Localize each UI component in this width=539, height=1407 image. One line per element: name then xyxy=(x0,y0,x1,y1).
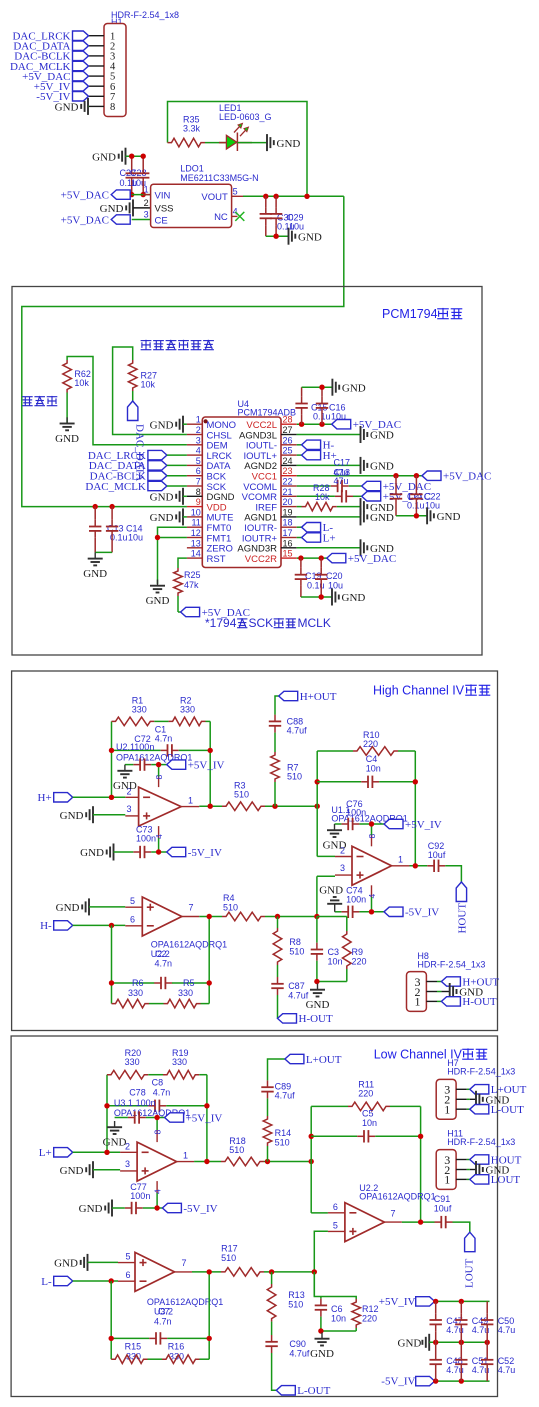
svg-text:GND: GND xyxy=(342,382,366,394)
svg-text:OPA1612AQDRQ1: OPA1612AQDRQ1 xyxy=(359,1191,435,1201)
resistor R8 510 xyxy=(273,928,304,965)
op-amp U2.2 OPA1612AQDRQ1 xyxy=(125,896,227,959)
wire feedback right rail to output xyxy=(414,751,416,866)
wire C73 to -5V_IV xyxy=(151,851,166,853)
capacitor C3 10n xyxy=(311,917,343,982)
svg-text:25: 25 xyxy=(283,446,293,456)
net flag -5V_IV (U3.1 V-) xyxy=(162,1203,217,1215)
svg-text:1: 1 xyxy=(444,1173,450,1187)
junction dots on cap rails xyxy=(129,154,134,159)
capacitor C50 4.7u xyxy=(481,1301,515,1342)
net flag +5V_IV (decoupling grid) xyxy=(379,1296,435,1308)
wire U2.1 output row xyxy=(199,805,222,807)
net flag +5V_IV (H1 pin 6) xyxy=(34,81,89,93)
resistor R11 220 xyxy=(311,1080,420,1111)
svg-text:R4: R4 xyxy=(223,893,235,903)
wire -5V_IV rail xyxy=(435,1380,490,1382)
svg-text:R15: R15 xyxy=(125,1342,142,1352)
svg-text:R13: R13 xyxy=(288,1290,305,1300)
svg-text:GND: GND xyxy=(310,1348,334,1360)
svg-text:GND: GND xyxy=(103,1137,127,1149)
svg-text:GND: GND xyxy=(79,1203,103,1215)
Low Channel IV section frame xyxy=(11,1036,497,1397)
junction dots VCC1 rail xyxy=(393,473,398,478)
svg-text:4.7uf: 4.7uf xyxy=(287,726,308,736)
svg-text:9: 9 xyxy=(196,497,201,507)
capacitor C17 47u xyxy=(297,458,362,493)
wire cap top rail xyxy=(126,155,144,157)
junction dots VDD rail xyxy=(93,504,98,509)
svg-text:-5V_IV: -5V_IV xyxy=(183,1203,217,1215)
svg-text:GND: GND xyxy=(150,512,174,524)
svg-text:-5V_IV: -5V_IV xyxy=(405,907,439,919)
svg-text:330: 330 xyxy=(128,988,143,998)
svg-text:47u: 47u xyxy=(334,476,349,486)
svg-text:6: 6 xyxy=(333,1202,338,1212)
capacitor C20 10u xyxy=(315,558,343,597)
wire U1.1 output xyxy=(410,865,428,867)
svg-text:GND: GND xyxy=(113,780,137,792)
svg-text:220: 220 xyxy=(358,1089,373,1099)
net flag L- (IOUTR-) xyxy=(297,522,334,534)
svg-text:GND: GND xyxy=(55,102,79,114)
svg-text:510: 510 xyxy=(289,947,304,957)
svg-text:4.7n: 4.7n xyxy=(154,1317,172,1327)
svg-text:OPA1612AQDRQ1: OPA1612AQDRQ1 xyxy=(147,1297,223,1307)
wire R7 column xyxy=(274,782,276,806)
net flag DAC-BCLK (U4) xyxy=(90,471,187,483)
svg-text:R16: R16 xyxy=(168,1342,185,1352)
wire U2.2 output xyxy=(402,1221,435,1223)
wire C15/C16 tops to ground xyxy=(302,386,332,388)
net flag L+ input xyxy=(39,1147,73,1159)
wire +5V_IV rail xyxy=(435,1300,490,1302)
ground GND (U2.2 pin5) xyxy=(56,898,126,915)
wire +5V_DAC flag to VIN xyxy=(132,194,151,196)
resistor R7 510 xyxy=(271,752,302,782)
svg-text:4.7n: 4.7n xyxy=(153,1088,171,1098)
ground GND (C78) xyxy=(103,1118,128,1149)
ground GND (H11 pin2) xyxy=(470,1161,510,1178)
svg-text:330: 330 xyxy=(125,1057,140,1067)
net flag +5V_DAC (LDO VIN) xyxy=(61,189,131,201)
svg-text:330: 330 xyxy=(180,705,195,715)
junction dots R4 row xyxy=(207,914,212,919)
net flag DAC_DATA (U4) xyxy=(89,460,187,472)
ground GND (AGND1) xyxy=(361,508,394,525)
svg-text:100n: 100n xyxy=(346,808,366,818)
capacitor C78 100n xyxy=(128,1088,156,1124)
svg-text:H+OUT: H+OUT xyxy=(300,691,337,703)
svg-text:GND: GND xyxy=(60,1165,84,1177)
svg-text:10u: 10u xyxy=(331,412,346,422)
svg-text:10n: 10n xyxy=(366,763,381,773)
wire R4 row to bias node xyxy=(265,916,317,918)
capacitor C47 4.7u xyxy=(430,1301,464,1342)
capacitor C1 4.7n xyxy=(112,725,211,757)
svg-text:+5V_DAC: +5V_DAC xyxy=(61,189,109,201)
net flag +5V_IV (U2.1 V+) xyxy=(167,759,225,771)
svg-text:GND: GND xyxy=(437,511,461,523)
svg-text:R17: R17 xyxy=(221,1244,238,1254)
wire H+ to U2.1 pin2 xyxy=(73,796,126,798)
ground GND (U4 pin1 MONO) xyxy=(150,416,187,433)
svg-text:220: 220 xyxy=(363,739,378,749)
wire AGND2 to ground xyxy=(297,464,360,466)
ground GND (C77) xyxy=(79,1200,125,1217)
wire R14 column xyxy=(267,1146,269,1162)
svg-text:GND: GND xyxy=(319,884,343,896)
svg-text:GND: GND xyxy=(323,840,347,852)
wire R18 to second stage xyxy=(264,1161,311,1163)
net flag -5V_IV (decoupling grid) xyxy=(381,1376,434,1388)
ground GND (C74) xyxy=(319,884,343,911)
svg-text:C87: C87 xyxy=(288,981,305,991)
net flag +5V_DAC (VCC2R) xyxy=(327,553,396,565)
net flag H- (IOUTL-) xyxy=(297,440,335,452)
svg-text:SCK: SCK xyxy=(249,616,274,630)
svg-text:HDR-F-2.54_1x3: HDR-F-2.54_1x3 xyxy=(417,960,485,970)
LED LED1 LED-0603_G xyxy=(219,103,272,151)
svg-text:10u: 10u xyxy=(328,581,343,591)
capacitor C77 100n xyxy=(125,1182,151,1214)
junction dots rail xyxy=(309,1134,314,1139)
net flag H+OUT (H8 pin3) xyxy=(441,976,499,988)
svg-text:5: 5 xyxy=(125,1252,130,1262)
wire C76 to +5V_IV xyxy=(359,823,384,825)
junction dots C1 row xyxy=(109,748,114,753)
net flag DAC_DATA (H1 pin 2) xyxy=(13,41,88,53)
net flag H+ (IOUTL+) xyxy=(297,450,337,462)
capacitor C22 10u xyxy=(410,476,440,516)
svg-text:R14: R14 xyxy=(275,1128,292,1138)
svg-text:L+: L+ xyxy=(39,1147,52,1159)
wire L- to U3.2 pin6 xyxy=(73,1280,118,1282)
svg-text:+5V_DAC: +5V_DAC xyxy=(443,471,491,483)
wire U3.1 output row xyxy=(194,1161,221,1163)
wire feedback rail (pin6 column) xyxy=(310,1106,312,1213)
capacitor C87 4.7uf xyxy=(271,977,308,1001)
svg-text:1: 1 xyxy=(183,1151,188,1161)
svg-text:3: 3 xyxy=(126,804,131,814)
svg-text:23: 23 xyxy=(283,466,293,476)
svg-text:GND: GND xyxy=(342,592,366,604)
svg-text:VSS: VSS xyxy=(155,204,174,215)
svg-text:GND: GND xyxy=(56,902,80,914)
svg-text:10n: 10n xyxy=(331,1314,346,1324)
svg-text:330: 330 xyxy=(178,988,193,998)
net flag +5V_DAC (LDO CE) xyxy=(61,214,131,226)
svg-text:R8: R8 xyxy=(289,937,301,947)
wire VCC2R rail xyxy=(297,557,327,559)
junction dots C8 row xyxy=(104,1103,109,1108)
ground GND (H7 pin2) xyxy=(470,1091,510,1108)
svg-text:GND: GND xyxy=(298,231,322,243)
svg-text:ME6211C33M5G-N: ME6211C33M5G-N xyxy=(180,173,258,183)
svg-text:24: 24 xyxy=(283,456,293,466)
wire R8 column xyxy=(277,917,279,929)
capacitor C27 0.1u xyxy=(120,156,138,194)
connector H11 HDR-F-2.54_1x3 xyxy=(436,1129,515,1190)
svg-text:5: 5 xyxy=(130,896,135,906)
net flag HOUT (H11 pin3) xyxy=(470,1154,522,1166)
resistor R15 330 xyxy=(111,1342,162,1364)
svg-text:U2.1: U2.1 xyxy=(116,742,135,752)
svg-text:1: 1 xyxy=(398,855,403,865)
svg-text:1: 1 xyxy=(444,1103,450,1117)
wire U3.2 output row xyxy=(192,1271,221,1273)
svg-text:+5V_DAC: +5V_DAC xyxy=(348,553,396,565)
svg-text:100n: 100n xyxy=(136,1098,156,1108)
svg-text:6: 6 xyxy=(130,915,135,925)
wire C88 to H+OUT flag xyxy=(275,696,279,715)
net flag +5V_DAC (RST pullup) xyxy=(181,607,250,619)
net flag DAC_MCLK (H1 pin 4) xyxy=(10,61,89,73)
wire R62 top to DEM column xyxy=(67,357,187,445)
svg-text:10uf: 10uf xyxy=(428,850,446,860)
net flag +5V_IV (U1.1 V+) xyxy=(384,819,442,831)
svg-text:RST: RST xyxy=(207,554,226,565)
resistor R1 330 xyxy=(112,696,169,726)
capacitor C5 10n xyxy=(311,1109,420,1143)
svg-text:LED-0603_G: LED-0603_G xyxy=(219,112,272,122)
svg-text:2: 2 xyxy=(196,425,201,435)
wire CE flag to pin xyxy=(132,219,151,221)
svg-text:15: 15 xyxy=(283,549,293,559)
svg-text:1: 1 xyxy=(196,415,201,425)
svg-text:-5V_IV: -5V_IV xyxy=(381,1376,415,1388)
capacitor C15 0.1u xyxy=(295,387,330,424)
op-amp U3.2 OPA1612AQDRQ1 xyxy=(118,1252,223,1317)
capacitor C74 100n xyxy=(341,885,366,918)
svg-text:+5V_IV: +5V_IV xyxy=(379,1296,416,1308)
svg-text:8: 8 xyxy=(153,1130,163,1135)
capacitor C4 10n xyxy=(317,754,415,788)
wire C19/C20 bottoms xyxy=(301,596,332,598)
svg-text:220: 220 xyxy=(352,957,367,967)
capacitor C90 4.7uf xyxy=(265,1335,310,1359)
resistor R17 510 xyxy=(221,1244,264,1277)
svg-text:R5: R5 xyxy=(183,978,195,988)
wire C77 to -5V_IV xyxy=(143,1207,163,1209)
junction dots R17 row xyxy=(207,1269,212,1274)
wire R25 to +5V_DAC flag xyxy=(177,596,179,612)
capacitor C48 4.7u xyxy=(430,1342,464,1381)
svg-text:H-OUT: H-OUT xyxy=(299,1013,333,1025)
resistor R14 510 xyxy=(263,1116,291,1148)
net flag L-OUT (H7 pin1) xyxy=(470,1104,524,1116)
wire caps bottom to ground xyxy=(266,235,288,237)
svg-text:3: 3 xyxy=(125,1159,130,1169)
svg-text:H+: H+ xyxy=(38,792,52,804)
capacitor C88 4.7uf xyxy=(269,715,307,752)
wire C78 to +5V_IV xyxy=(146,1117,165,1119)
svg-text:R12: R12 xyxy=(362,1304,379,1314)
svg-text:C7: C7 xyxy=(158,1307,170,1317)
wire R27 bottom to flag xyxy=(132,391,134,401)
capacitor C92 10uf xyxy=(427,841,446,872)
svg-text:10k: 10k xyxy=(141,380,156,390)
svg-text:GND: GND xyxy=(306,999,330,1011)
wire C13/C14 bottoms xyxy=(95,551,112,553)
svg-text:GND: GND xyxy=(370,512,394,524)
ground GND (C3/R9) xyxy=(306,984,330,1012)
ground GND (decoupling grid) xyxy=(398,1334,430,1351)
svg-text:10u: 10u xyxy=(289,221,304,231)
svg-text:3: 3 xyxy=(144,210,149,220)
svg-text:VCC2R: VCC2R xyxy=(245,554,277,565)
wire AGND3R to ground xyxy=(297,547,360,549)
svg-text:GND: GND xyxy=(277,138,301,150)
resistor R5 330 xyxy=(164,978,210,1008)
wire RST to R25 xyxy=(178,558,187,568)
ground GND (LDO VSS) xyxy=(100,199,151,216)
wire C87 to H-OUT flag xyxy=(277,995,279,1018)
svg-text:7: 7 xyxy=(391,1209,396,1219)
svg-text:28: 28 xyxy=(283,415,293,425)
svg-text:C8: C8 xyxy=(152,1078,164,1088)
net flag DAC_LRCK (U4) xyxy=(88,450,187,462)
wire R17 row to bias node xyxy=(264,1271,314,1273)
wire bias network top rail xyxy=(314,1272,356,1299)
wire VCC1 rail xyxy=(297,475,422,477)
svg-text:510: 510 xyxy=(229,1145,244,1155)
svg-text:L-: L- xyxy=(41,1276,52,1288)
svg-text:17: 17 xyxy=(283,528,293,538)
capacitor C7 4.7n xyxy=(111,1307,209,1345)
net flag H- input xyxy=(40,920,73,932)
svg-text:4.7uf: 4.7uf xyxy=(275,1091,296,1101)
svg-text:13: 13 xyxy=(191,538,201,548)
net flag +5V_DAC (VCOMR) xyxy=(362,491,431,503)
svg-text:GND: GND xyxy=(55,433,79,445)
svg-text:3: 3 xyxy=(196,435,201,445)
svg-text:8: 8 xyxy=(196,487,201,497)
net flag H-OUT (H8 pin1) xyxy=(441,996,496,1008)
wire R13 column xyxy=(271,1272,273,1284)
svg-text:16: 16 xyxy=(283,538,293,548)
wire bias network bottom xyxy=(317,981,347,983)
junction dots R3 row xyxy=(208,804,213,809)
svg-text:10u: 10u xyxy=(128,533,143,543)
resistor R18 510 xyxy=(221,1136,264,1166)
connector H7 HDR-F-2.54_1x3 xyxy=(436,1058,515,1119)
wire GND rail xyxy=(429,1341,489,1343)
High Channel IV section frame xyxy=(12,671,498,1031)
junction dot FMT1 xyxy=(155,535,160,540)
PCM1794 core section frame xyxy=(12,287,482,656)
resistor R12 220 xyxy=(352,1299,379,1331)
resistor R10 220 xyxy=(317,730,415,755)
wire C92 to HOUT xyxy=(445,866,461,882)
svg-text:6: 6 xyxy=(125,1270,130,1280)
svg-text:4: 4 xyxy=(196,446,201,456)
net flag DAC_LRCK (H1 pin 1) xyxy=(12,31,88,43)
ground GND (FMT0/FMT1) xyxy=(146,580,170,608)
svg-text:11: 11 xyxy=(191,518,200,528)
svg-text:R25: R25 xyxy=(184,570,201,580)
wire pin5 bias rail xyxy=(314,1231,328,1296)
svg-text:10n: 10n xyxy=(328,957,343,967)
svg-text:330: 330 xyxy=(172,1057,187,1067)
wire U3.1 feedback rails xyxy=(106,1075,108,1153)
wire U2.2 output row xyxy=(199,916,222,918)
svg-text:CE: CE xyxy=(155,215,168,226)
svg-text:8: 8 xyxy=(110,102,115,113)
svg-text:510: 510 xyxy=(287,772,302,782)
svg-text:PCM1794: PCM1794 xyxy=(382,307,438,321)
svg-text:GND: GND xyxy=(150,419,174,431)
svg-text:GND: GND xyxy=(370,461,394,473)
svg-text:LOUT: LOUT xyxy=(464,1258,476,1288)
net flag +5V_IV (U3.1 V+) xyxy=(165,1112,223,1124)
capacitor C29 10u xyxy=(270,196,304,236)
wire 3.3V feed into PCM1794 box xyxy=(22,196,344,506)
svg-text:100n: 100n xyxy=(134,742,154,752)
junction dots C2 row xyxy=(109,980,114,985)
ground GND (C13/C14) xyxy=(83,552,107,580)
svg-text:4.7n: 4.7n xyxy=(155,959,173,969)
svg-text:VIN: VIN xyxy=(155,190,171,201)
capacitor C6 10n xyxy=(315,1297,346,1332)
svg-text:220: 220 xyxy=(362,1314,377,1324)
wire H- to U2.2 pin6 xyxy=(73,924,126,926)
svg-text:C20: C20 xyxy=(326,571,343,581)
net flag L+OUT (H7 pin3) xyxy=(470,1084,527,1096)
svg-text:100n: 100n xyxy=(346,894,366,904)
op-amp U2.2 OPA1612AQDRQ1 (low) xyxy=(328,1183,436,1241)
wire bias network bottom xyxy=(321,1330,356,1332)
ground GND (AGND2) xyxy=(361,457,394,474)
capacitor C91 10uf xyxy=(434,1194,453,1228)
section title PCM1794 core xyxy=(382,307,462,321)
net flag -5V_IV (U1.1 V-) xyxy=(384,907,439,919)
svg-text:H-OUT: H-OUT xyxy=(462,996,496,1008)
resistor R6 330 xyxy=(112,978,164,1008)
op-amp U2.1 OPA1612AQDRQ1 xyxy=(116,742,199,839)
op-amp U1.1 OPA1612AQDRQ1 xyxy=(331,805,409,899)
op-amp U3.1 OPA1612AQDRQ1 xyxy=(114,1098,194,1194)
net flag H+OUT xyxy=(279,691,337,703)
svg-text:2: 2 xyxy=(144,198,149,208)
svg-text:L+: L+ xyxy=(323,532,336,544)
svg-text:4: 4 xyxy=(233,206,238,216)
capacitor C8 4.7n xyxy=(107,1078,207,1113)
svg-text:+5V_IV: +5V_IV xyxy=(188,759,225,771)
svg-text:VOUT: VOUT xyxy=(201,192,228,203)
svg-text:7: 7 xyxy=(182,1258,187,1268)
svg-text:510: 510 xyxy=(221,1253,236,1263)
wire U2.1 feedback right rail xyxy=(209,721,211,806)
ground GND (C15/C16) xyxy=(332,379,365,396)
capacitor C21 0.1u xyxy=(390,476,425,516)
resistor R25 47k xyxy=(174,568,201,596)
wire LED1 to ground xyxy=(237,142,266,144)
wire R27 top to CHSL column xyxy=(113,347,187,435)
resistor R27 10k xyxy=(128,360,157,391)
svg-text:20: 20 xyxy=(283,497,293,507)
capacitor C18 47u xyxy=(297,468,362,503)
svg-text:18: 18 xyxy=(283,518,293,528)
connector H8 HDR-F-2.54_1x3 xyxy=(407,951,486,1011)
svg-text:C90: C90 xyxy=(289,1339,306,1349)
svg-text:10: 10 xyxy=(191,507,201,517)
svg-text:510: 510 xyxy=(288,1300,303,1310)
svg-text:HOUT: HOUT xyxy=(457,903,469,934)
ground GND (U3.2 pin5) xyxy=(54,1254,118,1271)
svg-text:5: 5 xyxy=(233,186,238,196)
junction dots VCC2R xyxy=(298,555,303,560)
